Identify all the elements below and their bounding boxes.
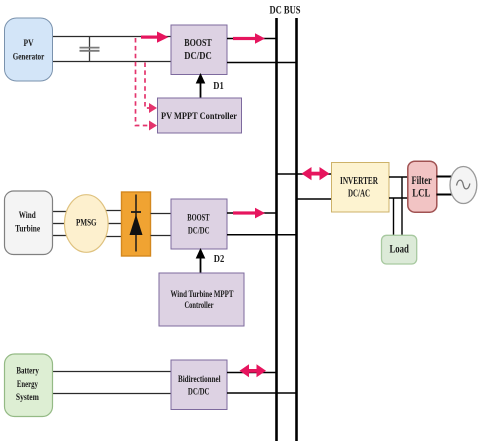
svg-text:Battery: Battery [16, 367, 39, 377]
svg-text:System: System [16, 393, 39, 403]
wire PV boost top output to bus 1 [227, 38, 277, 40]
wire inverter to filter top [389, 176, 408, 178]
svg-text:DC/AC: DC/AC [348, 189, 370, 200]
wire bidirectional converter top to bus 1 [227, 372, 277, 374]
wire filter to grid bottom [437, 194, 452, 196]
wind turbine [5, 191, 53, 255]
svg-text:DC/DC: DC/DC [188, 226, 210, 236]
svg-text:Turbine: Turbine [15, 225, 40, 235]
battery energy system [5, 354, 53, 417]
wire bidirectional converter bottom to bus 2 [227, 392, 297, 394]
svg-text:D1: D1 [213, 81, 224, 92]
svg-text:Energy: Energy [17, 380, 38, 390]
svg-text:PV MPPT Controller: PV MPPT Controller [161, 112, 238, 122]
svg-text:PV: PV [24, 39, 34, 49]
wire drop to load right [401, 177, 403, 235]
wire battery top to bidirectional converter [52, 371, 171, 373]
wire wind boost bottom output to bus 2 [227, 234, 297, 236]
arrow wind boost output [233, 208, 265, 219]
svg-text:Filter: Filter [412, 175, 432, 187]
DC bus bar 1 [275, 18, 278, 441]
wire PV boost bottom output to bus 2 [227, 62, 297, 64]
wire bus 1 to inverter top [277, 173, 332, 175]
arrow into PV MPPT controller (lower) [149, 121, 157, 131]
svg-text:Load: Load [389, 243, 409, 255]
wind turbine MPPT controller [159, 273, 244, 326]
capacitor C1 stem [89, 37, 91, 62]
LCL filter [408, 161, 437, 212]
arrow D2 from wind MPPT controller into boost [196, 248, 206, 273]
dashed feedback wire from PV bottom wire [145, 63, 151, 109]
wire rectifier bottom to wind boost [151, 235, 172, 237]
wire PV generator bottom to boost [52, 61, 171, 63]
wire inverter to filter bottom [389, 197, 408, 199]
bidirectional arrow battery [240, 364, 267, 377]
bidirectional arrow inverter [302, 167, 330, 180]
boost converter (PV) [171, 25, 227, 75]
svg-text:Generator: Generator [13, 53, 45, 63]
svg-text:Wind Turbine MPPT: Wind Turbine MPPT [171, 290, 234, 300]
arrow D1 from PV MPPT controller into boost [196, 73, 206, 98]
arrow into PV boost [141, 32, 169, 43]
PV generator [5, 18, 53, 81]
boost converter (wind) [171, 199, 227, 249]
PMSG generator [65, 195, 109, 253]
wire filter to grid top [437, 176, 452, 178]
arrow into PV MPPT controller (upper) [149, 103, 157, 113]
wire drop to load left [393, 198, 395, 235]
svg-text:LCL: LCL [412, 188, 430, 200]
svg-text:Wind: Wind [19, 211, 37, 221]
wire battery bottom to bidirectional converter [52, 393, 171, 395]
svg-text:INVERTER: INVERTER [340, 176, 379, 187]
capacitor C1 plates [80, 48, 100, 51]
AC grid source [450, 167, 477, 204]
wire PV generator top to boost [52, 36, 171, 38]
PV MPPT controller [158, 98, 242, 133]
wires wind turbine to PMSG [52, 212, 68, 236]
svg-text:DC/DC: DC/DC [188, 387, 210, 397]
svg-text:DC/DC: DC/DC [184, 51, 212, 62]
wires PMSG to rectifier [104, 211, 122, 237]
inverter [332, 163, 390, 213]
svg-text:PMSG: PMSG [76, 219, 97, 229]
arrow PV boost output [233, 33, 265, 44]
svg-text:Controller: Controller [185, 301, 215, 311]
bidirectional converter [171, 360, 227, 410]
dashed feedback wire from PV top wire [136, 38, 152, 126]
svg-text:BOOST: BOOST [184, 38, 212, 49]
svg-text:Bidirectionnel: Bidirectionnel [178, 375, 221, 385]
rectifier D3 [122, 192, 151, 256]
DC bus bar 2 [295, 18, 298, 441]
wire bus 2 to inverter bottom [297, 198, 332, 200]
svg-text:D2: D2 [214, 254, 225, 265]
svg-text:DC BUS: DC BUS [270, 5, 301, 17]
load [382, 235, 417, 264]
svg-text:BOOST: BOOST [187, 212, 209, 222]
wire wind boost top output to bus 1 [227, 212, 277, 214]
wire rectifier top to wind boost [151, 213, 172, 215]
